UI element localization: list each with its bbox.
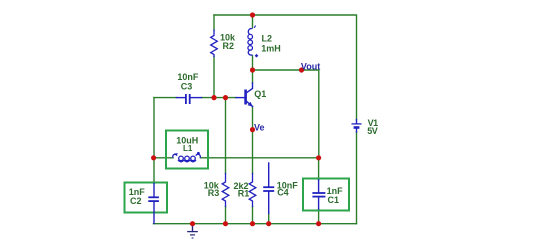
- svg-text:5V: 5V: [367, 126, 378, 136]
- svg-text:C4: C4: [277, 188, 289, 198]
- svg-text:C1: C1: [328, 195, 340, 205]
- svg-text:1mH: 1mH: [261, 44, 281, 54]
- svg-text:Ve: Ve: [254, 123, 265, 133]
- svg-text:R3: R3: [208, 188, 220, 198]
- svg-text:R1: R1: [238, 189, 250, 199]
- svg-text:C3: C3: [181, 81, 193, 91]
- svg-text:Vout: Vout: [301, 61, 320, 71]
- svg-text:L1: L1: [183, 144, 193, 153]
- svg-text:R2: R2: [223, 41, 235, 51]
- svg-text:L2: L2: [262, 34, 273, 44]
- svg-text:C2: C2: [130, 196, 142, 206]
- svg-text:Q1: Q1: [254, 89, 266, 99]
